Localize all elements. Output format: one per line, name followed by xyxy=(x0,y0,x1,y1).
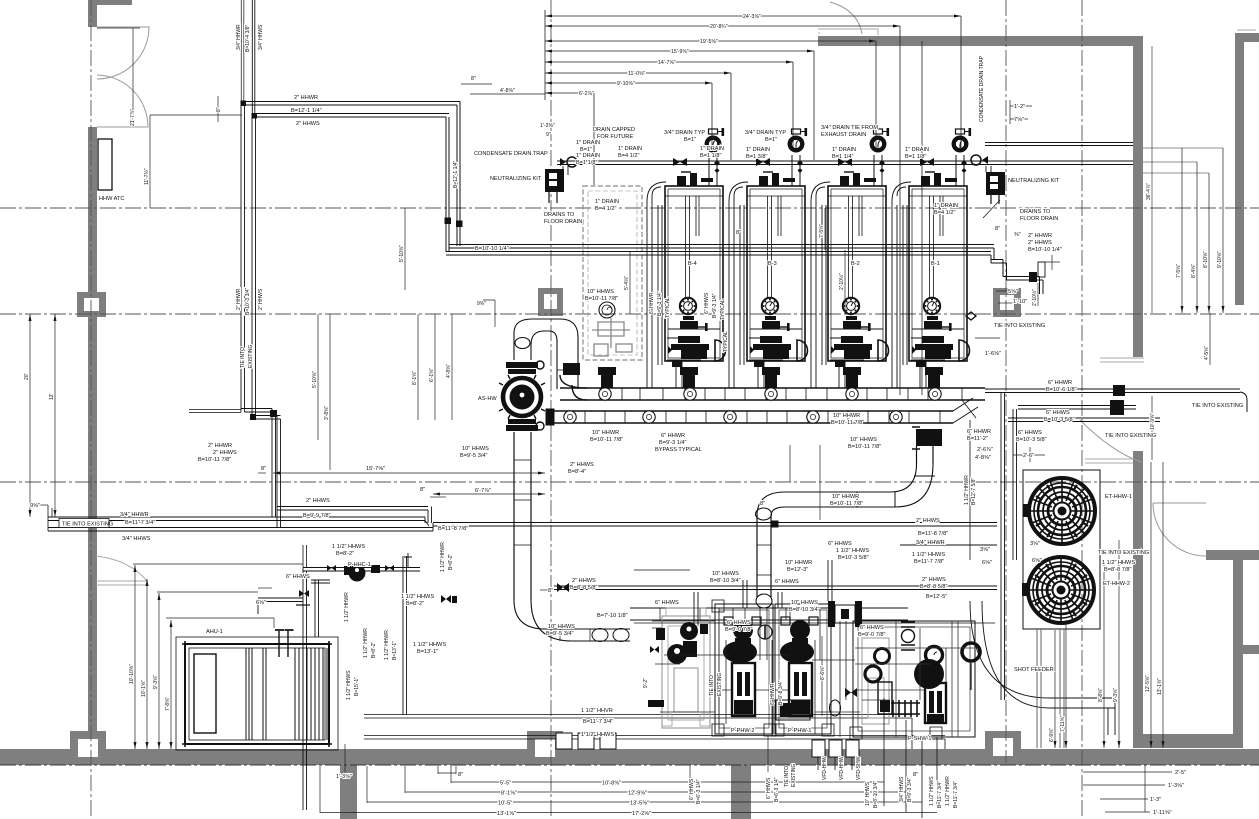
centerline H3 xyxy=(0,481,1259,483)
tank drain pipes to band xyxy=(1037,629,1064,748)
svg-text:2" HHWS: 2" HHWS xyxy=(296,121,320,127)
svg-text:2" HHWR: 2" HHWR xyxy=(236,288,242,310)
pipe vertical x970 (1.5in) xyxy=(969,420,971,560)
svg-text:1'-11⅝": 1'-11⅝" xyxy=(1153,810,1172,816)
spiral symbol 10in HHWS xyxy=(599,302,615,318)
pipe 2in verticals down xyxy=(446,102,460,253)
AHU coil stubs on top xyxy=(279,631,288,657)
svg-text:B=12'-1 1/4": B=12'-1 1/4" xyxy=(453,160,459,188)
existing light right wall outline xyxy=(1100,30,1256,362)
svg-text:DRAIN CAPPED: DRAIN CAPPED xyxy=(593,127,635,133)
pipe vertical x1001 xyxy=(1001,392,1005,700)
skid drop extension lines xyxy=(818,698,937,818)
small top dims right of riser xyxy=(461,83,492,85)
svg-text:10'-5": 10'-5" xyxy=(498,801,512,807)
svg-text:10'-9⅝": 10'-9⅝" xyxy=(1150,413,1156,430)
svg-text:VFD-HHW: VFD-HHW xyxy=(839,756,845,780)
svg-text:14'-7⅝": 14'-7⅝" xyxy=(658,60,676,66)
svg-text:B=8'-8 7/8": B=8'-8 7/8" xyxy=(1104,567,1131,573)
svg-text:10" HHWR: 10" HHWR xyxy=(592,430,619,436)
svg-text:B=1 3/8": B=1 3/8" xyxy=(746,154,767,160)
pipe 10in HHWR horizontal w/ elbows xyxy=(785,464,933,507)
svg-text:1'-3": 1'-3" xyxy=(1150,797,1161,803)
pipe 2in HHWS lower long xyxy=(554,586,997,590)
wall lower-right room right xyxy=(1233,560,1243,748)
svg-text:7'-5⅝": 7'-5⅝" xyxy=(1176,264,1182,278)
svg-text:1 1/2" HHWS: 1 1/2" HHWS xyxy=(413,642,446,648)
svg-text:7'-5⅝": 7'-5⅝" xyxy=(819,224,825,238)
svg-text:B=11'-8 7/8": B=11'-8 7/8" xyxy=(438,526,468,532)
oval coupling at bottom of drop xyxy=(756,594,772,608)
svg-text:13'-5⅝": 13'-5⅝" xyxy=(630,801,649,807)
svg-text:3/4" HHWS: 3/4" HHWS xyxy=(899,776,905,802)
svg-text:7'-8⅝": 7'-8⅝" xyxy=(165,697,171,711)
svg-text:B=9'-5 3/4": B=9'-5 3/4" xyxy=(460,453,487,459)
svg-text:B=9'-8 3/4": B=9'-8 3/4" xyxy=(778,680,784,705)
svg-text:8": 8" xyxy=(471,76,476,82)
tanks frame xyxy=(1023,470,1100,629)
dim 6-7 line xyxy=(433,493,545,495)
column B2 xyxy=(538,288,563,316)
svg-text:9'-3⅝": 9'-3⅝" xyxy=(153,675,159,689)
svg-text:EXISTING: EXISTING xyxy=(791,764,797,787)
flanged coupling xyxy=(828,601,835,627)
svg-text:4'-5⅝": 4'-5⅝" xyxy=(1204,346,1210,360)
svg-text:B=11'-8 7/8": B=11'-8 7/8" xyxy=(918,531,948,537)
svg-text:6" HHWS: 6" HHWS xyxy=(655,600,679,606)
header end caps xyxy=(560,375,587,400)
svg-text:2'-5": 2'-5" xyxy=(1175,770,1186,776)
svg-text:TIE INTO EXISTING: TIE INTO EXISTING xyxy=(1105,433,1156,439)
svg-text:B=10'-11 7/8": B=10'-11 7/8" xyxy=(590,437,623,443)
dim small above tie-in xyxy=(996,290,1012,292)
valve on zigzag xyxy=(1029,272,1037,282)
svg-text:TIE INTO: TIE INTO xyxy=(784,766,790,787)
svg-text:B=11'-7 3/4": B=11'-7 3/4" xyxy=(937,781,943,808)
svg-text:B=10'-3 5/8": B=10'-3 5/8" xyxy=(1044,417,1075,423)
svg-text:B=10'-10 1/4": B=10'-10 1/4" xyxy=(1028,247,1062,253)
svg-text:6" HHWS: 6" HHWS xyxy=(775,579,799,585)
svg-text:5'-4⅝": 5'-4⅝" xyxy=(624,276,630,290)
svg-text:B=9'-3 1/4": B=9'-3 1/4" xyxy=(659,440,686,446)
big elbow down at left xyxy=(757,492,785,516)
svg-text:B=6'-3 1/4": B=6'-3 1/4" xyxy=(774,777,780,802)
svg-text:4'-8⅝": 4'-8⅝" xyxy=(975,455,991,461)
door upper-left leaf2 xyxy=(97,75,148,127)
riser pair left of B-4 xyxy=(647,182,666,388)
skid SHW coupling ladder xyxy=(891,700,920,717)
svg-text:1'-3⅝": 1'-3⅝" xyxy=(540,123,555,129)
svg-text:B=9'-0 7/8": B=9'-0 7/8" xyxy=(858,632,885,638)
dim left 11-7 xyxy=(149,115,151,208)
door lower-right arc xyxy=(1153,503,1206,556)
svg-text:1" DRAIN: 1" DRAIN xyxy=(576,140,600,146)
svg-text:2" HHWS: 2" HHWS xyxy=(922,577,946,583)
svg-text:6⅝": 6⅝" xyxy=(982,560,992,566)
svg-text:8": 8" xyxy=(420,487,425,493)
door upper-left leaf1 xyxy=(97,27,149,79)
svg-text:1" DRAIN: 1" DRAIN xyxy=(934,203,958,209)
pipe 10in HHWS horizontal at y608-620 xyxy=(630,608,828,620)
svg-text:2" HHWR: 2" HHWR xyxy=(208,443,232,449)
drain drops to kits xyxy=(563,166,991,175)
skid right arcs xyxy=(970,601,1115,708)
svg-text:HHW ATC: HHW ATC xyxy=(99,196,124,202)
svg-text:B=8'-8 5/8": B=8'-8 5/8" xyxy=(570,585,597,591)
svg-text:B=9'-3 3/4": B=9'-3 3/4" xyxy=(907,777,913,802)
svg-text:8'-10⅝": 8'-10⅝" xyxy=(1203,251,1209,268)
wall top-right horizontal band xyxy=(818,36,1143,46)
svg-text:2'-6⅞": 2'-6⅞" xyxy=(977,447,993,453)
skid P-SHW-1 xyxy=(850,621,975,739)
svg-text:2" HHWS: 2" HHWS xyxy=(572,578,596,584)
pipe 2in HHWS horizontal xyxy=(253,114,449,118)
dim right-of-boilers verticals xyxy=(1181,148,1183,313)
svg-text:B=11'-7 7/8": B=11'-7 7/8" xyxy=(914,559,944,565)
svg-text:6" HHWS: 6" HHWS xyxy=(1046,410,1070,416)
svg-text:B=9'-9 7/8": B=9'-9 7/8" xyxy=(303,513,330,519)
svg-text:10" HHWR: 10" HHWR xyxy=(833,413,860,419)
dim right of zigzag xyxy=(1040,261,1060,263)
svg-text:8": 8" xyxy=(760,501,765,507)
svg-text:11'-0⅝": 11'-0⅝" xyxy=(628,71,645,77)
dim 1-2 / 7-5/8 right top xyxy=(1010,105,1032,107)
pipe 1.5 horizontal pair xyxy=(303,568,420,572)
header 10in HHWR xyxy=(560,388,985,400)
small fitting at 2in HHWS connection xyxy=(303,545,307,567)
svg-text:9⅝": 9⅝" xyxy=(30,503,40,509)
svg-text:B=10'-11 7/8": B=10'-11 7/8" xyxy=(830,501,863,507)
svg-text:B=15'-1": B=15'-1" xyxy=(354,677,360,696)
svg-text:1'-3⅝": 1'-3⅝" xyxy=(1168,783,1184,789)
svg-text:1" DRAIN: 1" DRAIN xyxy=(832,147,856,153)
oval couplings xyxy=(592,629,608,642)
svg-text:DRAINS TO: DRAINS TO xyxy=(544,212,575,218)
svg-text:2" HHWS: 2" HHWS xyxy=(1028,240,1052,246)
svg-text:7⅝": 7⅝" xyxy=(1014,117,1024,123)
svg-text:10" HHWR: 10" HHWR xyxy=(832,494,859,500)
svg-text:B=10'-11 7/8": B=10'-11 7/8" xyxy=(848,444,881,450)
svg-text:8'-8⅝": 8'-8⅝" xyxy=(1098,688,1104,702)
svg-text:6" HHWS: 6" HHWS xyxy=(828,541,852,547)
svg-text:AS-HW: AS-HW xyxy=(478,396,497,402)
svg-text:1 1/2" HHWR: 1 1/2" HHWR xyxy=(344,592,350,622)
svg-text:9'-3⅝": 9'-3⅝" xyxy=(1113,688,1119,702)
svg-text:B=10'-11 7/8": B=10'-11 7/8" xyxy=(585,296,618,302)
centerline V3 xyxy=(1005,0,1007,763)
svg-text:21'-7⅞": 21'-7⅞" xyxy=(130,109,136,126)
dim 15-7 horizontal xyxy=(273,472,545,474)
pipe 3/4 HHWR tie-into-existing xyxy=(48,517,425,521)
wall lower-right room top-right xyxy=(1206,550,1259,560)
svg-text:1 1/2" HHWS: 1 1/2" HHWS xyxy=(836,548,869,554)
svg-text:DRAINS TO: DRAINS TO xyxy=(1020,209,1051,215)
svg-text:6" HHWS: 6" HHWS xyxy=(689,778,695,800)
svg-text:8": 8" xyxy=(913,772,918,778)
svg-text:3⅝": 3⅝" xyxy=(980,547,990,553)
svg-text:2" HHWS: 2" HHWS xyxy=(916,518,940,524)
svg-text:1" DRAIN: 1" DRAIN xyxy=(746,147,770,153)
flue cap B-3 xyxy=(790,128,807,173)
svg-text:3/4" HHWS: 3/4" HHWS xyxy=(258,24,264,50)
svg-text:10" HHWS: 10" HHWS xyxy=(865,781,871,806)
svg-text:1" DRAIN: 1" DRAIN xyxy=(576,153,600,159)
riser pair left of B-2 xyxy=(811,182,830,388)
valve 6in HHWS xyxy=(1110,400,1124,415)
pipe 3/4 HHWR right segment xyxy=(900,544,997,546)
valve on vertical xyxy=(299,590,309,597)
centerline H2 xyxy=(0,313,1259,315)
pipe vertical x1013 xyxy=(1013,409,1017,560)
svg-text:2" HHWS: 2" HHWS xyxy=(213,450,237,456)
pipe 10in vertical drop x916-933 xyxy=(917,446,934,464)
svg-text:B=8'-2": B=8'-2" xyxy=(448,554,454,570)
condensate trap left xyxy=(567,157,577,167)
svg-text:B-3: B-3 xyxy=(768,261,777,267)
column A2 xyxy=(77,292,106,317)
skid P-PHW-2 xyxy=(712,600,776,736)
svg-text:6'-9⅝": 6'-9⅝" xyxy=(1049,728,1055,742)
svg-text:1 1/2" HHWS: 1 1/2" HHWS xyxy=(332,544,365,550)
svg-text:12': 12' xyxy=(49,393,55,400)
dim right mid (2-6) xyxy=(1013,454,1045,456)
svg-text:B=9'-3 1/4": B=9'-3 1/4" xyxy=(712,293,718,318)
svg-text:BYPASS TYPICAL: BYPASS TYPICAL xyxy=(655,447,702,453)
skid valves cluster xyxy=(441,595,857,720)
svg-text:B-2: B-2 xyxy=(851,261,860,267)
svg-text:9'-2": 9'-2" xyxy=(643,678,649,688)
pipe vertical pair to AHU xyxy=(303,568,307,741)
svg-text:8'-4⅝": 8'-4⅝" xyxy=(1191,264,1197,278)
svg-text:3⅝": 3⅝" xyxy=(1030,541,1040,547)
svg-text:1 1/2" HHWR: 1 1/2" HHWR xyxy=(363,628,369,658)
svg-text:15'-7⅝": 15'-7⅝" xyxy=(366,466,385,472)
svg-text:TYPICAL: TYPICAL xyxy=(720,299,726,320)
svg-text:EXISTING: EXISTING xyxy=(717,673,723,696)
skid P-PHW-1 xyxy=(772,604,834,736)
svg-text:B=9'-0 7/8": B=9'-0 7/8" xyxy=(725,627,752,633)
AHU-1 casing xyxy=(185,644,329,744)
dim verticals below band mid xyxy=(689,765,691,790)
svg-text:9": 9" xyxy=(546,132,551,138)
valve on 6in HHWR xyxy=(1113,385,1125,396)
pipe 3/4 HHWR vertical xyxy=(241,0,244,103)
pipe 6in HHWR to existing xyxy=(985,389,1247,412)
svg-text:B=12'-1 1/4": B=12'-1 1/4" xyxy=(291,108,322,114)
svg-text:B=11'-7 3/4": B=11'-7 3/4" xyxy=(953,781,959,808)
svg-text:P-HHC-1: P-HHC-1 xyxy=(348,562,371,568)
svg-text:B=8'-8 5/8": B=8'-8 5/8" xyxy=(920,584,947,590)
svg-text:6'-1⅝": 6'-1⅝" xyxy=(429,368,435,382)
pump AS-HW gear ticks xyxy=(499,375,545,419)
pipe zigzag right end xyxy=(991,248,1043,294)
svg-text:13'-1⅝": 13'-1⅝" xyxy=(497,811,516,817)
dims near AHU 6-5/8 xyxy=(258,587,272,589)
boiler bottom connections xyxy=(676,361,926,388)
svg-text:9⅜": 9⅜" xyxy=(477,301,486,307)
flue cap B-4 xyxy=(707,128,724,173)
svg-text:1 1/2" HHVR: 1 1/2" HHVR xyxy=(581,708,613,714)
svg-text:B=12'-7 5/8": B=12'-7 5/8" xyxy=(971,477,977,505)
tank ET-HHW-1 xyxy=(1029,478,1095,544)
wall bottom band xyxy=(0,749,1259,765)
svg-text:B-4: B-4 xyxy=(688,261,697,267)
dim bottom extension verticals xyxy=(437,766,439,774)
riser pair left of B-1 xyxy=(892,182,911,388)
svg-text:1 1/2" HHWS: 1 1/2" HHWS xyxy=(401,594,434,600)
svg-text:ET-HHW-1: ET-HHW-1 xyxy=(1105,494,1132,500)
wall far-right top stub xyxy=(1235,33,1259,42)
svg-text:6" HHWS: 6" HHWS xyxy=(704,292,710,314)
flue cap B-1 xyxy=(954,128,971,173)
svg-text:B=8'-10 3/4": B=8'-10 3/4" xyxy=(710,578,741,584)
existing wall light lines top xyxy=(818,29,878,35)
door right-mid arc xyxy=(1080,420,1141,462)
svg-text:8": 8" xyxy=(261,466,266,472)
svg-text:10" HHWS: 10" HHWS xyxy=(587,289,614,295)
svg-text:P-PHW-2: P-PHW-2 xyxy=(731,728,755,734)
svg-text:1" DRAIN: 1" DRAIN xyxy=(905,147,929,153)
svg-text:8": 8" xyxy=(216,107,222,112)
pipe 1.5 HHWS verticals at x403 xyxy=(403,556,407,715)
wall lower-right room left xyxy=(1133,451,1143,748)
svg-text:8": 8" xyxy=(548,588,553,594)
svg-text:B=8'-10 3/4": B=8'-10 3/4" xyxy=(873,780,879,808)
svg-text:1 1/2" HHWS: 1 1/2" HHWS xyxy=(346,670,352,700)
centerline V1 xyxy=(90,0,92,819)
dim 9-5/8 left xyxy=(38,504,48,506)
svg-text:2" HHWS: 2" HHWS xyxy=(306,498,330,504)
dim 8 mid xyxy=(430,496,446,498)
dims mid Q1 xyxy=(317,314,319,440)
dim verticals from centerline314 xyxy=(629,251,631,314)
dim left col verticals to band xyxy=(134,565,136,749)
svg-text:4'-8⅝": 4'-8⅝" xyxy=(446,364,452,378)
pipes 1.5in bottom long runs xyxy=(364,715,912,719)
svg-text:3/4" HHWR: 3/4" HHWR xyxy=(120,512,149,518)
svg-text:9'-10⅝": 9'-10⅝" xyxy=(1217,251,1223,268)
svg-text:B=9'-3 1/4": B=9'-3 1/4" xyxy=(657,291,663,316)
svg-text:6" HHWS: 6" HHWS xyxy=(766,777,772,799)
svg-text:10" HHWS: 10" HHWS xyxy=(850,437,877,443)
door top-center arc xyxy=(830,2,862,34)
svg-text:1'-10": 1'-10" xyxy=(1013,299,1027,305)
dim left 12ft xyxy=(54,314,56,517)
svg-text:10'-1⅝": 10'-1⅝" xyxy=(141,680,147,697)
HHW ATC panel xyxy=(98,139,112,190)
svg-text:CONDENSATE DRAIN TRAP: CONDENSATE DRAIN TRAP xyxy=(474,151,548,157)
svg-text:B=8'-10 3/4": B=8'-10 3/4" xyxy=(789,607,820,613)
svg-text:3/4" HHWS: 3/4" HHWS xyxy=(122,536,151,542)
drain lines extending to wall xyxy=(985,143,1133,146)
centerline H4 bottom xyxy=(0,764,1259,766)
drain header valves xyxy=(673,158,934,166)
pump P-HHC-1 xyxy=(349,565,365,581)
svg-text:5'-10⅝": 5'-10⅝" xyxy=(312,371,318,388)
svg-text:B=10'-4 3/8": B=10'-4 3/8" xyxy=(245,24,251,52)
pipe exit right of header diagonal xyxy=(953,398,978,423)
svg-text:B=13'-1": B=13'-1" xyxy=(392,641,398,660)
svg-text:⅜": ⅜" xyxy=(1014,232,1021,238)
lintel light lines left wall xyxy=(96,581,148,585)
svg-text:12'-9⅝": 12'-9⅝" xyxy=(628,791,647,797)
wall stub below band left xyxy=(340,765,357,819)
pipe 10in riser vertical xyxy=(514,432,531,600)
svg-text:1'-3⅝": 1'-3⅝" xyxy=(336,774,352,780)
svg-text:B=11'-2": B=11'-2" xyxy=(967,436,988,442)
svg-text:6" HHWR: 6" HHWR xyxy=(649,292,655,314)
dim bottom rows left xyxy=(438,772,456,774)
skid existing pumps (black) xyxy=(667,622,708,664)
svg-text:6" HHWR: 6" HHWR xyxy=(1048,380,1072,386)
svg-text:1 1/2" HHWR: 1 1/2" HHWR xyxy=(945,776,951,806)
svg-text:5'-10⅝": 5'-10⅝" xyxy=(399,245,405,262)
pipe 10in elbow bottom to right xyxy=(514,600,630,641)
svg-text:B=10'-3 5/8": B=10'-3 5/8" xyxy=(838,555,869,561)
fitting dots xyxy=(241,101,247,107)
svg-text:1" DRAIN: 1" DRAIN xyxy=(595,199,619,205)
svg-text:2" HHWS: 2" HHWS xyxy=(258,288,264,310)
valves on 1.5 line xyxy=(327,565,336,571)
skid SHW flange ladder xyxy=(901,622,915,650)
svg-text:TIE INTO: TIE INTO xyxy=(240,347,246,368)
svg-text:B=7'-10 1/8": B=7'-10 1/8" xyxy=(597,613,628,619)
svg-text:7'-11⅝": 7'-11⅝" xyxy=(1060,715,1066,732)
svg-text:20': 20' xyxy=(24,373,30,380)
header ports row2 xyxy=(564,411,576,423)
wall far-right vertical xyxy=(1235,33,1244,305)
svg-text:EXHAUST DRAIN: EXHAUST DRAIN xyxy=(821,132,866,138)
svg-text:8'-1⅝": 8'-1⅝" xyxy=(412,371,418,385)
header 2 lower xyxy=(552,411,953,423)
valve black on drop xyxy=(916,429,942,446)
svg-text:1 1/2" HHWS: 1 1/2" HHWS xyxy=(1102,560,1135,566)
omega over-arch to header xyxy=(514,319,578,389)
svg-text:B=9'-5 3/4": B=9'-5 3/4" xyxy=(546,631,573,637)
svg-text:B=8'-2": B=8'-2" xyxy=(406,601,424,607)
svg-text:B=12'-3": B=12'-3" xyxy=(787,567,808,573)
boiler B-3 xyxy=(747,172,807,361)
svg-text:17'-2⅝": 17'-2⅝" xyxy=(632,811,651,817)
svg-text:B=4 1/2": B=4 1/2" xyxy=(934,210,955,216)
svg-text:FLOOR DRAIN: FLOOR DRAIN xyxy=(1020,216,1058,222)
left end stub xyxy=(48,505,52,531)
neutralizing kit right xyxy=(966,172,1005,320)
dim 6-5/8 line above AHU xyxy=(166,618,274,628)
dim left 20ft xyxy=(29,314,31,517)
svg-text:AHU-1: AHU-1 xyxy=(206,629,223,635)
wall lower-right room bottom xyxy=(1133,734,1243,748)
svg-text:B=1 1/8": B=1 1/8" xyxy=(700,153,721,159)
wall top-left along top edge xyxy=(88,0,132,5)
existing wall light line near tanks xyxy=(1085,459,1133,463)
svg-text:3/4" DRAIN TIE FROM: 3/4" DRAIN TIE FROM xyxy=(821,125,878,131)
pipe 2in lower run to right xyxy=(446,245,994,256)
flue risers xyxy=(709,155,964,186)
svg-text:EXISTING: EXISTING xyxy=(248,345,254,368)
svg-text:20'-8¾": 20'-8¾" xyxy=(710,24,728,30)
svg-text:10'-8⅝": 10'-8⅝" xyxy=(602,781,621,787)
svg-text:6" HHWS: 6" HHWS xyxy=(860,625,884,631)
drain header pipe xyxy=(557,160,980,162)
svg-text:8'-1⅝": 8'-1⅝" xyxy=(501,791,517,797)
svg-text:6" HHWR: 6" HHWR xyxy=(770,683,776,705)
svg-text:FLOOR DRAIN: FLOOR DRAIN xyxy=(544,219,582,225)
column B4 xyxy=(527,731,563,765)
svg-text:VFD-HHW: VFD-HHW xyxy=(822,756,828,780)
svg-text:1 1/2" HHWS: 1 1/2" HHWS xyxy=(581,732,614,738)
svg-text:1" DRAIN: 1" DRAIN xyxy=(700,146,724,152)
